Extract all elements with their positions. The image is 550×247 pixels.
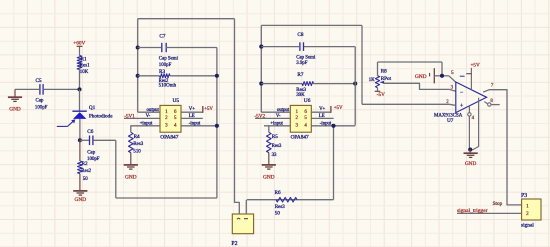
svg-text:V+: V+ (189, 107, 195, 112)
svg-text:+60V: +60V (73, 41, 85, 47)
svg-text:Photodiode: Photodiode (89, 114, 113, 120)
svg-text:OPA847: OPA847 (160, 135, 178, 141)
svg-text:Cap Semi: Cap Semi (296, 55, 316, 60)
svg-text:Res2: Res2 (81, 169, 91, 174)
svg-text:Cap: Cap (87, 151, 95, 156)
svg-text:U5: U5 (173, 98, 180, 104)
svg-text:3.9pF: 3.9pF (296, 61, 308, 66)
svg-text:+5V: +5V (204, 107, 213, 112)
svg-text:33: 33 (272, 153, 277, 158)
svg-text:1: 1 (526, 204, 529, 210)
svg-text:-5V: -5V (377, 92, 385, 98)
svg-text:R3: R3 (159, 69, 165, 75)
svg-text:+: + (460, 103, 463, 109)
svg-text:Res3: Res3 (275, 205, 285, 210)
svg-text:LE: LE (319, 114, 325, 119)
svg-text:R5: R5 (272, 134, 278, 140)
svg-text:100pF: 100pF (35, 105, 48, 110)
svg-text:Res1: Res1 (80, 63, 90, 68)
svg-text:output: output (147, 108, 160, 113)
svg-text:-5V1: -5V1 (124, 114, 135, 120)
svg-text:GND: GND (125, 174, 137, 180)
svg-text:V-: V- (146, 114, 151, 119)
svg-text:1K: 1K (369, 78, 376, 83)
svg-text:Cap Semi: Cap Semi (159, 57, 179, 62)
svg-text:GND: GND (415, 74, 427, 80)
svg-text:C5: C5 (36, 78, 42, 84)
svg-text:10K: 10K (80, 70, 89, 75)
svg-text:LE: LE (189, 114, 195, 119)
svg-text:RPot: RPot (381, 76, 392, 82)
svg-text:GND: GND (465, 161, 477, 167)
svg-text:R6: R6 (275, 190, 281, 196)
svg-text:R4: R4 (134, 134, 140, 140)
svg-text:Res3: Res3 (133, 142, 143, 147)
svg-text:signal: signal (521, 222, 534, 228)
svg-text:output: output (277, 108, 290, 113)
svg-text:100pF: 100pF (159, 63, 172, 68)
svg-text:Q1: Q1 (89, 105, 96, 111)
svg-text:GND: GND (75, 197, 87, 203)
svg-text:Stop: Stop (493, 201, 503, 207)
svg-text:Cap: Cap (36, 99, 44, 104)
svg-text:-5V2: -5V2 (254, 114, 265, 120)
svg-text:P2: P2 (231, 241, 237, 247)
svg-text:Res3: Res3 (272, 144, 282, 149)
svg-text:GND: GND (9, 107, 21, 113)
svg-text:+5V: +5V (471, 63, 481, 69)
svg-text:C7: C7 (159, 34, 165, 40)
svg-text:50: 50 (275, 212, 280, 217)
svg-text:C6: C6 (87, 129, 93, 135)
svg-text:P3: P3 (521, 193, 527, 199)
svg-text:U6: U6 (304, 98, 311, 104)
svg-text:R1: R1 (81, 56, 87, 62)
svg-text:-input: -input (320, 121, 332, 126)
svg-text:R2: R2 (82, 161, 88, 167)
svg-text:V-: V- (276, 114, 281, 119)
svg-text:+5V: +5V (334, 106, 343, 111)
svg-text:+input: +input (270, 121, 283, 126)
svg-text:-input: -input (189, 122, 201, 127)
svg-text:OPA847: OPA847 (291, 135, 309, 141)
svg-text:+input: +input (140, 121, 153, 126)
svg-text:U7: U7 (447, 118, 454, 124)
svg-text:100pF: 100pF (87, 157, 100, 162)
svg-text:5: 5 (451, 70, 454, 76)
svg-text:2: 2 (526, 211, 529, 217)
svg-text:−: − (460, 90, 463, 96)
svg-text:R8: R8 (381, 69, 387, 75)
svg-text:50: 50 (83, 177, 88, 182)
svg-text:V+: V+ (319, 107, 325, 112)
svg-text:510: 510 (133, 149, 141, 154)
svg-text:R7: R7 (297, 72, 303, 78)
svg-text:GND: GND (263, 174, 275, 180)
svg-text:510Omh: 510Omh (159, 83, 177, 88)
svg-text:signal_trigger: signal_trigger (457, 208, 488, 214)
svg-text:C8: C8 (297, 32, 303, 38)
